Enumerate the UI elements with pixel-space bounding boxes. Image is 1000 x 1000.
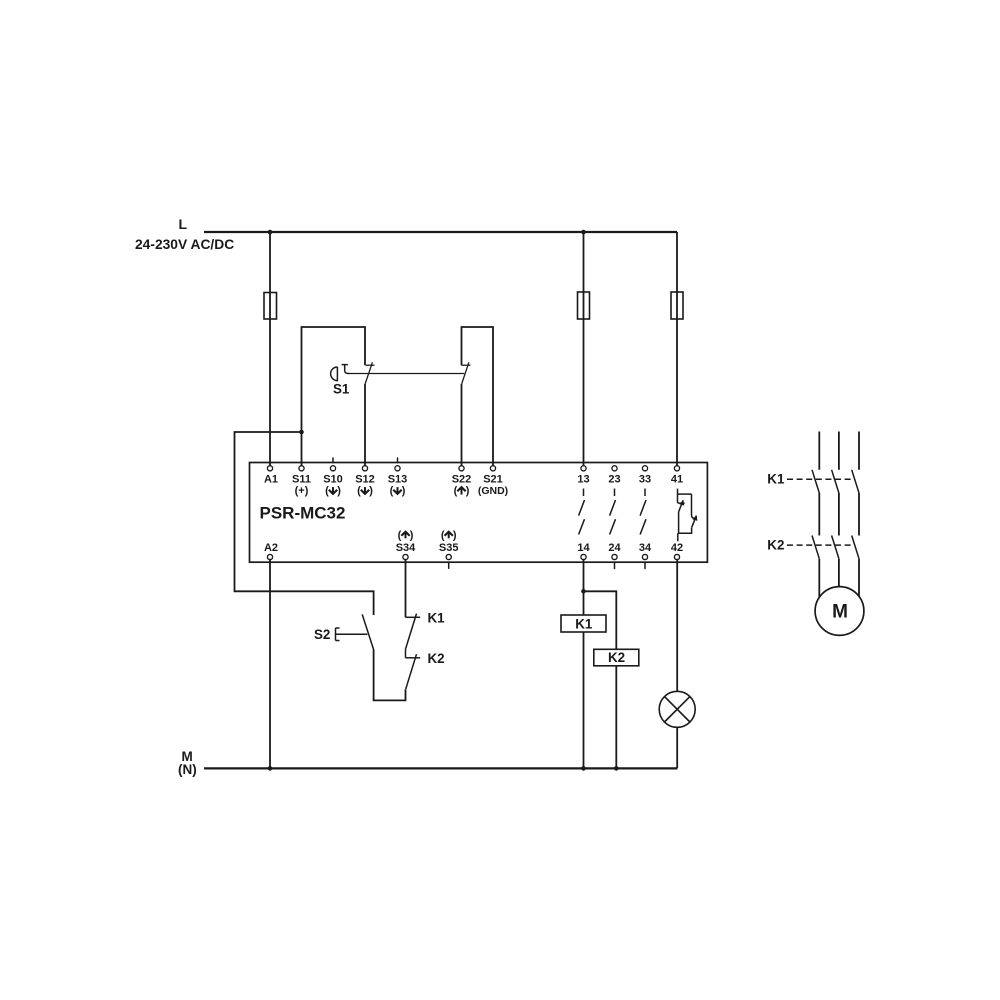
svg-text:A1: A1 <box>264 474 278 486</box>
svg-text:S13: S13 <box>388 474 408 486</box>
svg-text:): ) <box>402 485 406 497</box>
svg-text:24-230V AC/DC: 24-230V AC/DC <box>135 237 234 252</box>
svg-text:PSR-MC32: PSR-MC32 <box>260 504 346 523</box>
svg-text:A2: A2 <box>264 542 278 554</box>
svg-text:S11: S11 <box>292 474 311 486</box>
svg-text:L: L <box>179 216 188 232</box>
svg-text:S22: S22 <box>452 474 472 486</box>
svg-text:S12: S12 <box>355 474 375 486</box>
svg-text:33: 33 <box>639 474 651 486</box>
svg-text:): ) <box>453 529 457 541</box>
svg-text:(+): (+) <box>295 485 309 497</box>
svg-text:K2: K2 <box>767 538 784 553</box>
svg-text:S2: S2 <box>314 627 330 642</box>
svg-text:S1: S1 <box>333 381 350 396</box>
svg-text:S35: S35 <box>439 542 459 554</box>
svg-text:K1: K1 <box>767 472 785 487</box>
svg-text:24: 24 <box>608 542 621 554</box>
svg-text:M: M <box>832 602 848 623</box>
svg-text:): ) <box>369 485 373 497</box>
svg-text:23: 23 <box>608 474 620 486</box>
svg-text:S34: S34 <box>396 542 416 554</box>
svg-text:34: 34 <box>639 542 652 554</box>
svg-text:(GND): (GND) <box>478 485 508 497</box>
svg-text:(: ( <box>454 485 458 497</box>
svg-text:14: 14 <box>577 542 590 554</box>
svg-text:): ) <box>410 529 414 541</box>
svg-text:41: 41 <box>671 474 683 486</box>
svg-text:(N): (N) <box>178 762 197 777</box>
svg-text:): ) <box>466 485 470 497</box>
svg-text:42: 42 <box>671 542 683 554</box>
svg-text:S10: S10 <box>323 474 343 486</box>
svg-text:K1: K1 <box>575 616 593 631</box>
svg-text:): ) <box>337 485 341 497</box>
svg-text:K2: K2 <box>608 650 625 665</box>
svg-text:13: 13 <box>577 474 589 486</box>
svg-text:K2: K2 <box>428 651 445 666</box>
svg-text:K1: K1 <box>428 610 446 625</box>
svg-text:S21: S21 <box>483 474 503 486</box>
